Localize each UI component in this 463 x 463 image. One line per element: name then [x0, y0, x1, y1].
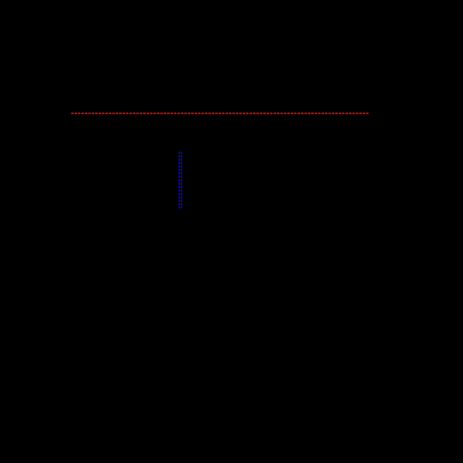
wire W2b: blue dashed vertical bus highlight (right conductor)	[181, 152, 183, 209]
wire W1: red dashed horizontal net highlight	[71, 112, 368, 114]
wire W2a: blue dashed vertical bus highlight (left conductor)	[178, 152, 180, 209]
